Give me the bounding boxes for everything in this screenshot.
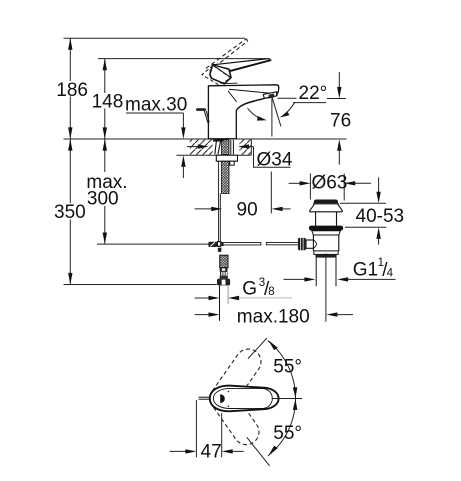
22° slanted spray line: [272, 98, 281, 127]
svg-text:4: 4: [387, 268, 394, 280]
lift rod tick (top view): [199, 396, 210, 398]
max.30 leader vertical: [182, 113, 184, 129]
inner diagonal line: [228, 91, 237, 102]
deck bottom line: [177, 154, 252, 156]
dashed stadium rotated up 55: [212, 344, 266, 406]
nut tab: [230, 161, 234, 165]
ref line top of closed handle (148): [98, 58, 266, 60]
svg-text:350: 350: [54, 202, 86, 223]
arrow hourglass at deck x105: [103, 127, 107, 139]
clevis center square: [217, 242, 220, 247]
76 top ref line: [278, 97, 297, 99]
svg-text:55°: 55°: [273, 357, 302, 378]
22° right arc arrow: [284, 103, 294, 115]
faucet body outline: [208, 85, 278, 139]
G1 1/4 arrows: [284, 278, 307, 280]
arrowheads lower arc: [293, 399, 297, 410]
drain plug cap: [314, 200, 338, 204]
drain flange bell: [310, 204, 343, 212]
horizontal rod: [224, 242, 261, 244]
ball joint arc: [313, 240, 316, 248]
right washer lines in hole: [230, 140, 232, 154]
Ø34 arrows in deck: [198, 144, 209, 148]
deck hatch right of hole: [240, 140, 251, 155]
threaded shank in hole: [222, 140, 230, 155]
aerator dark mark: [220, 394, 225, 403]
max.180 dimension: [195, 314, 211, 316]
arrow up 186 top: [68, 38, 72, 50]
hose small band: [220, 276, 228, 279]
rod end caps: [260, 242, 262, 245]
O-ring seal: [309, 226, 343, 231]
lift rod knob: [196, 108, 206, 111]
40-53 dimension: [340, 202, 386, 204]
drain body: [312, 235, 314, 240]
ref line top of raised handle (186): [64, 37, 246, 39]
max.30 leader underline: [126, 112, 183, 114]
svg-text:max.30: max.30: [125, 95, 187, 116]
rod tip below clevis: [218, 248, 222, 252]
arrow down max300 bottom: [103, 233, 107, 245]
svg-text:76: 76: [330, 111, 351, 132]
deck hatch left of hole: [190, 140, 213, 155]
arrow up 148 top: [103, 59, 107, 71]
dimension vertical 148/max300 at x=104.8: [104, 59, 106, 245]
drain neck: [315, 212, 317, 226]
text G 3/8: [239, 297, 292, 299]
svg-text:148: 148: [92, 92, 124, 113]
max.30 arrow down to deck top: [181, 127, 185, 139]
inner stadium outline (top view): [213, 388, 272, 408]
lift rod bent section: [204, 111, 208, 123]
base gasket dark bar in hole: [213, 140, 224, 142]
55° arc lower: [268, 399, 296, 456]
solid outer stadium (top view): [210, 386, 279, 412]
hose below nut: [219, 285, 221, 320]
aerator: [263, 92, 277, 99]
handle lever: [213, 59, 271, 72]
Ø63 extension lines: [309, 174, 311, 200]
svg-text:22°: 22°: [299, 83, 328, 104]
svg-text:40-53: 40-53: [356, 206, 405, 227]
76 dim bottom arrow: [337, 139, 341, 151]
svg-text:8: 8: [268, 286, 274, 298]
clevis right block: [221, 242, 224, 246]
55 extension line lower: [247, 437, 270, 466]
tailpipe center line: [325, 254, 327, 322]
dashed stadium rotated down 55: [212, 391, 264, 450]
350 bottom ref line: [64, 284, 217, 286]
knuckle facet diagonal: [213, 65, 231, 77]
bottom nut dark band: [316, 254, 337, 257]
handle knuckle: [210, 65, 231, 84]
knurled knob: [298, 238, 306, 250]
threaded shank below deck: [222, 161, 230, 193]
76 dim top arrow: [338, 72, 340, 90]
dashed raised lever: [206, 39, 248, 71]
spout head crease line: [229, 89, 275, 94]
mounting nut under deck: [216, 155, 237, 161]
lift rod below deck: [218, 161, 220, 247]
hole through deck (white): [213, 140, 239, 155]
deck right edge: [250, 139, 252, 155]
svg-text:47: 47: [201, 442, 222, 463]
tiny hole dots: [228, 391, 230, 393]
left wedge in hole: [215, 140, 221, 154]
lever socket: [306, 240, 313, 248]
22° left arc arrow: [248, 108, 262, 118]
svg-text:max.180: max.180: [237, 306, 310, 327]
arrow down 350 bottom: [68, 273, 72, 285]
svg-text:55°: 55°: [273, 423, 302, 444]
Ø63 arrows: [289, 182, 301, 184]
hose knurled section: [220, 255, 228, 267]
tailpipe: [315, 258, 317, 287]
under-flange: [312, 231, 341, 235]
svg-text:Ø34: Ø34: [257, 150, 293, 171]
bottom nut light band: [314, 251, 338, 255]
arrow hourglass at deck x70: [68, 127, 72, 139]
aerator dark tip: [268, 94, 274, 99]
svg-text:300: 300: [87, 189, 119, 210]
svg-text:186: 186: [56, 80, 88, 101]
max.30 arrow up to deck bottom: [181, 155, 185, 167]
dimension vertical 186/350 at x=70.3: [69, 38, 71, 284]
hose collar band with window: [220, 268, 228, 272]
22° vertical reference: [271, 99, 273, 137]
clevis left block: [208, 242, 217, 247]
55° arc upper: [268, 341, 296, 398]
deck top line: [64, 138, 347, 140]
22° underline: [293, 102, 326, 104]
svg-text:G: G: [242, 278, 257, 299]
hose nut: [217, 279, 230, 286]
drain rod right segment: [266, 241, 298, 243]
cap line under handle: [225, 82, 238, 85]
Ø34 leader step: [254, 147, 291, 168]
svg-text:Ø63: Ø63: [312, 173, 348, 194]
55 extension line upper: [248, 338, 267, 359]
spout underside curve: [236, 98, 264, 110]
G 3/8 arrows: [195, 297, 211, 299]
center line right of top view: [272, 398, 302, 400]
hose ribbed section: [220, 271, 228, 276]
lever underside thick: [231, 60, 271, 70]
svg-text:G1: G1: [353, 260, 378, 281]
47 dimension: [195, 400, 197, 457]
arrowheads upper arc: [293, 387, 297, 398]
dashed raised-handle square: [202, 65, 231, 84]
max300 bottom ref line: [97, 243, 209, 245]
90 dimension: [270, 172, 272, 214]
svg-text:90: 90: [237, 200, 258, 221]
